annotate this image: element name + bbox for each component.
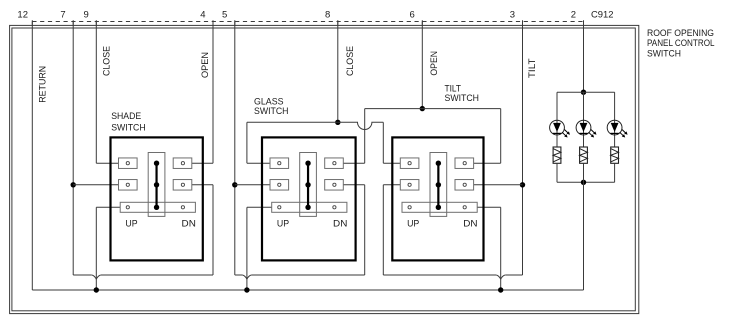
label GLASS SWITCH xyxy=(254,97,289,118)
wire pin 7 vertical xyxy=(72,22,74,276)
resistor R3 xyxy=(611,147,619,163)
switch body shade SW1 xyxy=(111,137,203,260)
pin 12 tick xyxy=(31,20,33,25)
wire tilt wrap left column down xyxy=(382,185,384,275)
wire to glass switch row 1 right contact xyxy=(343,162,364,164)
wire shade common column down to bus xyxy=(95,207,97,290)
housing label ROOF OPENING PANEL CONTROL SWITCH xyxy=(647,28,715,60)
wire pin 7 to shade funnel xyxy=(73,274,92,276)
wire LED branch 1 lower xyxy=(556,163,558,182)
glass SW2 contact row 2 left terminal xyxy=(270,180,289,191)
svg-text:OPEN: OPEN xyxy=(429,51,440,76)
shade SW1 rocker wiper xyxy=(155,163,157,207)
svg-text:DN: DN xyxy=(182,219,196,230)
shade SW1 common bar row 3 xyxy=(120,202,195,212)
wire LED branch 2 lower xyxy=(583,163,585,182)
svg-text:3: 3 xyxy=(510,10,515,21)
svg-text:UP: UP xyxy=(125,219,137,230)
pin 7 tick xyxy=(72,20,74,25)
label SHADE SWITCH xyxy=(111,111,146,134)
wire glass switch row 3 common to left column xyxy=(247,206,272,208)
glass SW2 rocker wiper xyxy=(307,163,309,207)
svg-text:SWITCH: SWITCH xyxy=(445,93,480,104)
svg-text:TILT: TILT xyxy=(527,58,538,78)
svg-text:SWITCH: SWITCH xyxy=(111,123,146,134)
pin 9 tick xyxy=(95,20,97,25)
wire tilt wrap under box to funnel xyxy=(383,274,496,276)
wire pin 9 CLOSE vertical xyxy=(95,22,97,164)
shade SW1 contact row 1 right terminal xyxy=(173,158,192,169)
svg-text:OPEN: OPEN xyxy=(200,52,211,78)
wire pin 6 OPEN vertical xyxy=(421,22,423,109)
wire tilt OPEN right column xyxy=(500,109,502,164)
wire LED supply bus xyxy=(557,91,615,93)
splice funnel above tilt bus node xyxy=(496,275,501,279)
tilt SW3 rocker housing xyxy=(430,153,447,217)
svg-text:UP: UP xyxy=(277,219,289,230)
svg-text:7: 7 xyxy=(60,10,65,21)
splice funnel above glass bus node xyxy=(242,275,247,279)
switch body tilt SW3 xyxy=(392,137,483,260)
resistor R2 xyxy=(580,147,588,163)
svg-text:C912: C912 xyxy=(591,10,614,21)
wire LED branch 1 upper xyxy=(556,92,558,147)
wire glass OPEN right column xyxy=(364,109,366,164)
pin 3 tick xyxy=(522,20,524,25)
shade SW1 contact row 1 left terminal xyxy=(119,158,138,169)
wire shade wrap right column down xyxy=(212,185,214,275)
pin 2 tick xyxy=(583,20,585,25)
glass SW2 common bar row 3 xyxy=(272,202,347,212)
svg-text:2: 2 xyxy=(571,10,576,21)
svg-text:9: 9 xyxy=(84,10,89,21)
wire glass switch row 2 right contact to wrap column xyxy=(343,184,364,186)
wire pin 8 horizontal left branch xyxy=(247,121,338,123)
wire pin 6 horizontal xyxy=(365,108,501,110)
pin 6 tick xyxy=(421,20,423,25)
switch housing outer border xyxy=(10,25,639,313)
svg-text:DN: DN xyxy=(463,219,477,230)
tilt SW3 contact row 2 left terminal xyxy=(400,180,419,191)
resistor R1 xyxy=(553,147,561,163)
wire LED return bus xyxy=(557,181,615,183)
label TILT SWITCH xyxy=(445,84,480,105)
LED D1 xyxy=(550,120,570,137)
tilt SW3 rocker wiper xyxy=(437,163,439,207)
wire shade switch row 3 common to left column xyxy=(96,206,120,208)
wire pin 9 to shade switch row 1 left contact xyxy=(96,162,118,164)
svg-text:8: 8 xyxy=(325,10,330,21)
svg-text:SWITCH: SWITCH xyxy=(254,106,289,117)
wire pin 12 RETURN vertical xyxy=(31,22,33,291)
wire pin 5 vertical xyxy=(234,22,236,276)
pin 4 tick xyxy=(212,20,214,25)
wire pin 4 OPEN vertical xyxy=(212,22,214,164)
switch housing inner border xyxy=(12,28,635,311)
wire LED branch 2 upper xyxy=(583,92,585,147)
node LED return junction xyxy=(581,180,586,185)
tilt SW3 common bar row 3 xyxy=(402,202,477,212)
wire pin 8 CLOSE vertical xyxy=(337,22,339,123)
shade SW1 contact row 2 left terminal xyxy=(119,180,138,191)
glass SW2 contact row 1 right terminal xyxy=(325,158,344,169)
svg-text:6: 6 xyxy=(410,10,415,21)
svg-text:12: 12 xyxy=(17,10,28,21)
shade SW1 contact row 2 right terminal xyxy=(173,180,192,191)
splice funnel above shade bus node xyxy=(92,275,97,279)
node pin 2 / LED supply junction xyxy=(581,90,586,95)
LED D3 xyxy=(607,120,627,137)
switch body glass SW2 xyxy=(262,137,356,260)
wire LED branch 3 lower xyxy=(614,163,616,182)
glass SW2 contact row 1 left terminal xyxy=(270,158,289,169)
tilt SW3 contact row 1 right terminal xyxy=(455,158,474,169)
pin 5 tick xyxy=(234,20,236,25)
wire pin 4 to shade switch row 1 right contact xyxy=(192,162,213,164)
node pin 3 / tilt row 2 junction xyxy=(520,182,525,187)
svg-text:CLOSE: CLOSE xyxy=(345,46,356,76)
wire pin 3 TILT vertical xyxy=(522,22,524,276)
shade SW1 rocker housing xyxy=(148,153,165,217)
wire to tilt switch row 1 right contact xyxy=(474,162,501,164)
node pin 8 junction xyxy=(335,120,340,125)
wire pin 3 to tilt funnel xyxy=(505,274,522,276)
wire pin 7 to shade switch row 2 left contact xyxy=(73,184,118,186)
svg-text:4: 4 xyxy=(200,10,205,21)
wire to glass switch row 1 left contact xyxy=(247,162,270,164)
wire glass wrap under box to funnel xyxy=(251,274,364,276)
node tilt common on return bus xyxy=(498,287,503,292)
wire tilt common column down to bus xyxy=(500,207,502,290)
wire pin 5 to glass switch row 2 left contact xyxy=(235,184,270,186)
glass SW2 contact row 2 right terminal xyxy=(325,180,344,191)
node pin 6 junction xyxy=(420,106,425,111)
wire glass CLOSE left column xyxy=(246,122,248,163)
tilt SW3 contact row 2 right terminal xyxy=(455,180,474,191)
wire tilt switch row 3 common to right column xyxy=(477,206,501,208)
wire LED return to bottom bus xyxy=(583,182,585,290)
node shade common on return bus xyxy=(94,287,99,292)
LED D2 xyxy=(576,120,596,137)
svg-text:SWITCH: SWITCH xyxy=(647,48,681,59)
node pin 5 / glass row 2 junction xyxy=(232,182,237,187)
glass SW2 rocker housing xyxy=(300,153,317,217)
wire pin 5 to glass funnel xyxy=(235,274,243,276)
wire LED branch 3 upper xyxy=(614,92,616,147)
wire shade switch row 2 right contact to wrap column xyxy=(192,184,213,186)
pin 8 tick xyxy=(337,20,339,25)
connector C912 dashed line xyxy=(32,21,583,23)
wire pin 8 horizontal right branch with hop over glass OPEN wire xyxy=(338,122,384,129)
node pin 7 / shade row 2 junction xyxy=(71,182,76,187)
wire RETURN bottom bus xyxy=(32,289,583,291)
wire pin 3 to tilt switch row 2 right contact xyxy=(474,184,523,186)
wire tilt switch row 2 left contact to wrap column xyxy=(383,184,400,186)
wire shade wrap under box to funnel xyxy=(101,274,213,276)
svg-text:UP: UP xyxy=(407,219,419,230)
wire pin 2 vertical xyxy=(583,22,585,93)
svg-text:CLOSE: CLOSE xyxy=(102,46,113,76)
svg-text:RETURN: RETURN xyxy=(37,66,48,103)
svg-text:DN: DN xyxy=(333,219,347,230)
wire glass common column down to bus xyxy=(246,207,248,290)
svg-text:SHADE: SHADE xyxy=(111,111,141,122)
wire tilt CLOSE left column xyxy=(382,122,384,163)
wire to tilt switch row 1 left contact xyxy=(383,162,400,164)
tilt SW3 contact row 1 left terminal xyxy=(400,158,419,169)
wire glass wrap right column down xyxy=(364,185,366,275)
svg-text:5: 5 xyxy=(222,10,227,21)
node glass common on return bus xyxy=(244,287,249,292)
